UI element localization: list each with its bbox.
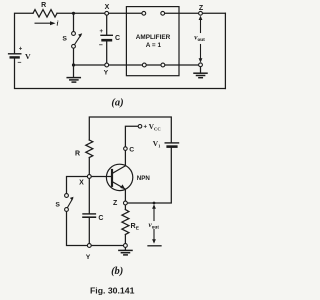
wire: v_out arrow lower segment (b): [153, 230, 155, 241]
transistor collector diagonal: [112, 166, 125, 174]
wire: amplifier output terminal to Z and right edge: [163, 12, 226, 14]
wire: v_out arrow upper segment (b): [153, 208, 155, 221]
junction: top of switch branch (a): [72, 12, 75, 15]
wire: node X left to switch (b): [67, 177, 90, 194]
node Y (b): [87, 244, 91, 248]
resistor R: [33, 10, 57, 17]
junction: bottom of switch branch (a): [72, 63, 75, 66]
svg-text:X: X: [79, 180, 84, 187]
svg-text:Fig. 30.141: Fig. 30.141: [90, 286, 135, 296]
amplifier bottom-right terminal: [161, 63, 165, 67]
wire: R bottom to node X (b): [88, 158, 90, 177]
RE bottom node (b): [124, 244, 128, 248]
wire: (a) right edge: [224, 13, 226, 88]
svg-text:–: –: [99, 42, 103, 49]
switch terminal circles (a): [72, 32, 76, 36]
svg-text:(a): (a): [111, 97, 123, 108]
svg-text:Z: Z: [113, 200, 118, 207]
battery V1 plates: [165, 142, 178, 144]
transistor emitter arrowhead: [120, 184, 125, 189]
capacitor C (b) plates: [83, 213, 95, 215]
svg-text:Y: Y: [104, 70, 109, 77]
svg-text:C: C: [98, 215, 103, 222]
v_out arrowheads (b): [152, 204, 156, 208]
arrowhead of switch blade (b): [70, 197, 74, 201]
wire: emitter down to node Z: [124, 189, 126, 203]
op-amp box: AMPLIFIER A=1: [126, 7, 179, 76]
svg-text:+: +: [100, 29, 104, 35]
svg-text:Y: Y: [86, 254, 91, 261]
svg-text:R: R: [75, 151, 80, 158]
svg-text:S: S: [62, 36, 67, 43]
Vcc terminal circle (b): [138, 125, 142, 129]
svg-text:S: S: [55, 202, 60, 209]
arrowhead of switch blade (a): [78, 33, 82, 37]
battery V plates: [9, 53, 21, 55]
transistor emitter diagonal: [112, 182, 125, 189]
svg-text:(b): (b): [111, 266, 123, 277]
capacitor C (a) bottom lead to node Y: [106, 40, 108, 65]
svg-text:AMPLIFIER: AMPLIFIER: [136, 34, 171, 41]
svg-text:Z: Z: [199, 5, 204, 12]
svg-text:V: V: [25, 52, 31, 61]
wire: resistor to amplifier input terminal: [57, 12, 144, 14]
svg-text:–: –: [18, 60, 22, 67]
wire: collector up to C terminal and Vcc tap: [125, 126, 138, 166]
wire: (a) top wire battery+ to resistor: [15, 13, 34, 53]
node Z (b): [124, 201, 128, 205]
wire: v_out arrow upper segment (a): [200, 19, 202, 33]
wire: (a) left edge below battery and bottom wire: [15, 58, 226, 89]
svg-text:+: +: [144, 125, 148, 131]
wire: v_out arrow lower segment (a): [200, 45, 202, 60]
wire: ground stem under switch: [73, 65, 75, 77]
wire: node X to transistor base: [89, 176, 111, 178]
capacitor C (b) top lead from X: [88, 177, 90, 214]
svg-text:i: i: [57, 20, 59, 28]
wire: Z to RE top: [124, 203, 126, 210]
capacitor C (a) plates: [101, 34, 112, 36]
ground (output, a): [194, 73, 207, 78]
svg-text:NPN: NPN: [137, 175, 151, 182]
svg-text:A = 1: A = 1: [146, 42, 162, 49]
amplifier output terminal top-right: [161, 11, 165, 15]
wire: switch branch vertical from top junction: [73, 13, 75, 32]
current arrow i (a): [35, 21, 56, 25]
svg-text:R: R: [41, 2, 46, 9]
wire: Y node to RE bottom node (b): [89, 245, 125, 247]
svg-text:+: +: [19, 47, 23, 53]
v_out arrowheads (a): [199, 16, 203, 20]
collector terminal C circle (b): [124, 147, 128, 151]
svg-text:C: C: [115, 35, 120, 42]
transistor base bar: [111, 170, 113, 186]
output ground node (a): [199, 63, 203, 67]
resistor RE (b): [122, 210, 129, 235]
node Y (a): [105, 63, 109, 67]
switch S blade: [74, 35, 81, 45]
capacitor C (a) top lead from node X: [106, 13, 108, 35]
switch S blade (b): [67, 199, 72, 208]
wire: switch bottom to mid-wire junction: [73, 48, 75, 65]
wire: ground stem under RE node: [124, 246, 126, 251]
svg-text:X: X: [105, 4, 110, 11]
transistor Q1 circle: [106, 164, 132, 190]
switch terminal circles (b): [65, 194, 69, 198]
node Z (a): [199, 11, 203, 15]
junction: v_out meets Z wire (b): [153, 202, 156, 205]
node X (a): [105, 11, 109, 15]
wire: ground stem under output node (a): [200, 67, 202, 73]
v_out reference tick (b): [148, 245, 161, 247]
resistor R (b): [86, 140, 93, 158]
amplifier bottom-left terminal: [142, 63, 146, 67]
wire: RE bottom to bottom node: [124, 235, 126, 246]
wire: node Z right to battery V1 branch: [125, 148, 171, 203]
wire: (a) mid wire from switch junction through Y to amplifier bottom terminals and output ground node: [74, 64, 201, 66]
ground (b): [119, 250, 132, 255]
svg-text:C: C: [129, 146, 134, 153]
wire: (b) top wire: [89, 117, 171, 143]
capacitor C (b) bottom lead to Y: [88, 217, 90, 245]
wire: switch bottom to bottom wire (b): [67, 211, 90, 245]
node X (b): [87, 175, 91, 179]
amplifier input terminal top-left: [142, 11, 146, 15]
ground (under switch): [67, 78, 80, 83]
